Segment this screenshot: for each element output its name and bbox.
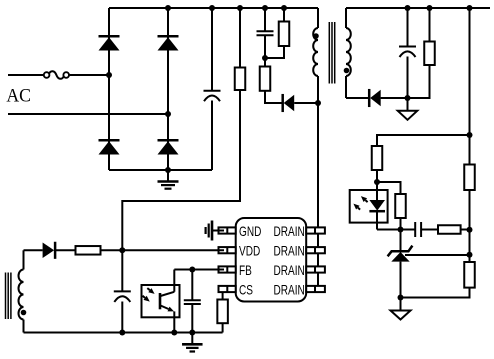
junction output rail — [467, 5, 473, 11]
wire bulk cap to bottom — [211, 101, 213, 171]
wire C3 to ground rail — [121, 302, 123, 333]
wire aux to D7 — [24, 249, 43, 251]
junction feedback tap — [467, 132, 473, 138]
ground secondary — [398, 98, 418, 120]
junction emitter ground — [171, 330, 177, 336]
wire D6 to output node — [381, 97, 430, 99]
wire R1 to VDD node — [122, 90, 240, 250]
wire to R8 — [377, 182, 401, 194]
wire to R2 — [283, 8, 285, 22]
resistor R12 bleeder — [424, 42, 435, 66]
wire bridge branch 1 — [108, 8, 110, 170]
wire into LED — [376, 182, 378, 201]
resistor R9 compensation — [438, 225, 461, 234]
wire bridge branch 2 — [167, 8, 169, 170]
diode D6 output rectifier — [369, 89, 381, 107]
wire VDD node to C3 — [121, 250, 123, 291]
resistor R7 feedback — [372, 146, 383, 170]
LED light arrow 1 — [353, 204, 360, 210]
pin DRAIN — [306, 286, 325, 292]
wire emitter to ground — [173, 311, 175, 332]
polarity dot secondary — [344, 68, 350, 74]
wire C2 to node — [264, 35, 266, 66]
svg-text:DRAIN: DRAIN — [274, 243, 305, 259]
wire LED cathode down — [376, 211, 378, 230]
wire rail to primary — [317, 8, 319, 28]
resistor R5 current sense — [217, 300, 228, 324]
node LED anode — [374, 179, 380, 185]
wire R3 to D5 — [265, 91, 282, 103]
wire rail to R1 — [239, 8, 241, 68]
wire collector diagonal — [161, 292, 175, 296]
diode D7 aux rectifier — [43, 242, 56, 259]
wire R5 to ground rail — [222, 323, 224, 332]
resistor R4 aux series — [76, 246, 101, 255]
junction snubber res top — [281, 5, 287, 11]
resistor R1 startup — [235, 68, 246, 91]
ground GND pin — [206, 221, 212, 241]
wire C5 to return — [407, 57, 409, 99]
wire top rail — [109, 7, 318, 9]
resistor R11 divider lower — [464, 262, 475, 288]
capacitor C1 bulk — [204, 91, 221, 102]
junction output res top — [427, 5, 433, 11]
wire secondary top rail — [346, 7, 490, 9]
wire ground rail — [24, 332, 223, 334]
wire C4 to ground rail — [191, 304, 193, 333]
wire secondary bottom — [345, 76, 347, 98]
wire R2 bottom to node — [265, 46, 284, 58]
inductor L1 aux winding — [19, 270, 24, 320]
svg-text:AC: AC — [6, 85, 31, 105]
wire node to zener — [400, 230, 402, 252]
pin DRAIN — [306, 227, 325, 233]
wire R9 to rail — [461, 229, 470, 231]
IC U1 body — [236, 218, 307, 302]
wire LED cathode rail — [377, 229, 415, 231]
zener diode ZD1 — [388, 246, 413, 262]
polarity dot aux — [21, 310, 27, 316]
wire feedback tap to R7 — [377, 135, 470, 146]
wire C6 to R9 — [421, 229, 438, 231]
wire fuse to bridge node — [69, 74, 109, 76]
wire aux bottom — [23, 320, 25, 333]
wire R7 to LED node — [376, 170, 378, 182]
wire zener anode — [400, 262, 402, 298]
svg-text:CS: CS — [239, 282, 253, 298]
pin DRAIN — [306, 247, 325, 253]
wire to C2 — [264, 8, 266, 31]
node secondary return — [405, 95, 411, 101]
capacitor C6 compensation — [415, 222, 421, 237]
resistor R8 parallel LED — [395, 194, 406, 218]
resistor R10 divider upper — [464, 165, 475, 191]
transformer T1 secondary winding — [346, 28, 351, 76]
wire to C5 — [407, 8, 409, 47]
fuse F1 — [44, 71, 69, 79]
polarity dot primary — [313, 33, 319, 39]
capacitor C5 output — [399, 47, 416, 58]
junction C3 ground — [119, 330, 125, 336]
transformer T1 core — [329, 22, 334, 84]
svg-text:DRAIN: DRAIN — [274, 262, 305, 278]
svg-text:FB: FB — [239, 262, 252, 278]
node AC-L junction — [106, 72, 112, 78]
wire FB — [174, 269, 224, 271]
pin FB — [219, 266, 236, 272]
transformer T1 primary winding — [313, 28, 318, 76]
junction FB cap — [189, 267, 195, 273]
LED U2a — [369, 200, 385, 211]
wire CS pin to R5 — [222, 292, 224, 299]
pin VDD — [219, 247, 236, 253]
wire output rail middle — [469, 190, 471, 262]
wire secondary top — [345, 8, 347, 28]
resistor R3 snubber series — [260, 67, 271, 91]
pin CS — [219, 286, 236, 292]
transistor U2b emitter arrow — [161, 306, 175, 312]
wire output rail upper — [469, 8, 471, 165]
wire R12 to return — [408, 65, 430, 98]
junction bottom rail — [165, 167, 171, 173]
wire AC neutral — [8, 113, 168, 115]
transistor U2b base bar — [159, 293, 162, 309]
wire to bulk cap — [211, 8, 213, 91]
capacitor C3 VDD — [114, 291, 131, 302]
svg-text:DRAIN: DRAIN — [274, 282, 305, 298]
wire R11 to zener anode — [401, 288, 470, 298]
wire VDD — [101, 249, 225, 251]
junction C4 ground — [189, 330, 195, 336]
pin DRAIN — [306, 266, 325, 272]
node zener anode — [398, 295, 404, 301]
node zener cathode net — [398, 227, 404, 233]
node AC-N junction — [165, 111, 171, 117]
junction bulk cap top — [209, 5, 215, 11]
wire drain bus — [317, 76, 319, 289]
wire collector riser — [173, 270, 175, 292]
resistor R2 snubber — [279, 22, 290, 47]
inductor L1 core — [6, 273, 11, 320]
pin GND — [219, 227, 236, 233]
ground primary — [158, 170, 179, 189]
junction zener rail — [467, 252, 473, 258]
LED light arrow 2 — [361, 196, 368, 202]
wire R8 to node — [400, 218, 402, 230]
ground zener — [391, 298, 411, 320]
node snubber RC — [262, 55, 268, 61]
wire aux top — [23, 250, 25, 269]
svg-text:GND: GND — [239, 223, 262, 239]
light arrow 2 into U2b — [143, 296, 150, 302]
svg-text:DRAIN: DRAIN — [274, 223, 305, 239]
wire FB to C4 — [191, 270, 193, 301]
junction startup top — [237, 5, 243, 11]
wire D5 to drain bus — [294, 102, 318, 104]
wire AC line to fuse — [8, 74, 44, 76]
opto-coupler U2 transistor box — [142, 285, 180, 317]
diode D4 — [158, 140, 179, 154]
diode D1 — [99, 36, 120, 50]
wire D7 to R4 — [56, 249, 76, 251]
node VDD supply — [119, 247, 125, 253]
wire ground to GND pin — [212, 230, 224, 232]
diode D5 clamp — [283, 94, 295, 112]
light arrow 1 into U2b — [147, 288, 154, 294]
svg-text:VDD: VDD — [239, 243, 261, 259]
diode D2 — [158, 36, 179, 50]
opto-coupler U2 LED box — [350, 190, 388, 223]
junction output cap top — [405, 5, 411, 11]
ground controller — [182, 333, 203, 352]
capacitor C4 FB filter — [184, 300, 201, 304]
capacitor C2 snubber — [257, 31, 274, 35]
node drain — [315, 100, 321, 106]
wire secondary return — [346, 97, 368, 99]
diode D3 — [99, 140, 120, 154]
wire zener cathode to rail — [405, 254, 470, 256]
wire bridge bottom rail — [109, 169, 212, 171]
junction R9 rail — [467, 227, 473, 233]
junction snubber cap top — [262, 5, 268, 11]
junction top rail — [165, 5, 171, 11]
wire to R12 — [429, 8, 431, 42]
